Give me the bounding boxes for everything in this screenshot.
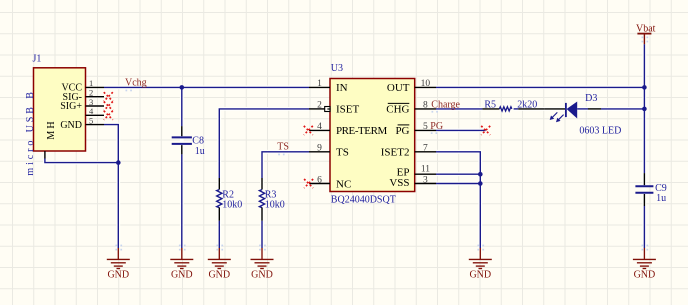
svg-text:GND: GND — [634, 269, 656, 280]
svg-text:5: 5 — [89, 115, 93, 125]
svg-text:6: 6 — [317, 175, 322, 185]
svg-text:TS: TS — [277, 142, 289, 153]
svg-text:10: 10 — [421, 79, 431, 89]
wire U3 ISET to R2 — [219, 109, 309, 178]
U3 pin 3 VSS — [415, 175, 436, 185]
wire C9 to GND — [643, 206, 645, 248]
no-ERC cross J1 pin 3 — [104, 102, 113, 111]
svg-text:2: 2 — [317, 101, 322, 111]
wire OUT to Vbat rail — [436, 86, 644, 88]
svg-text:1u: 1u — [195, 146, 205, 157]
svg-text:GND: GND — [208, 269, 230, 280]
svg-text:TS: TS — [336, 146, 349, 158]
svg-text:micro USB B: micro USB B — [25, 89, 36, 175]
svg-text:ISET: ISET — [336, 103, 360, 115]
capacitor C8 — [172, 87, 205, 156]
wire down to GND under J1 — [117, 163, 119, 248]
svg-text:PRE-TERM: PRE-TERM — [336, 125, 387, 137]
svg-text:U3: U3 — [331, 63, 343, 74]
no-ERC cross U3 pin 4 — [304, 126, 313, 135]
ground GND under C8 — [170, 248, 193, 269]
U3 pin 1 IN — [309, 79, 330, 89]
svg-text:3: 3 — [423, 175, 428, 185]
ground GND under J1 — [107, 248, 130, 269]
node EP junction — [478, 172, 483, 177]
wire U3 TS to R3 — [262, 152, 309, 178]
svg-text:Vchg: Vchg — [125, 78, 147, 89]
svg-text:1: 1 — [317, 79, 322, 89]
no-ERC cross J1 pin 2 — [104, 92, 113, 101]
ground GND under R3 — [251, 248, 274, 269]
U3 pin 10 OUT — [415, 79, 436, 89]
node D3/Vbat junction — [642, 107, 647, 112]
node Vchg junction at C8 — [180, 85, 185, 90]
wire Vchg net: J1 pin1 to U3 IN — [104, 86, 309, 88]
wire EP pin11 to GND net — [436, 173, 480, 175]
svg-text:ISET2: ISET2 — [381, 146, 410, 158]
LED D3 — [545, 93, 645, 136]
svg-text:GND: GND — [60, 120, 82, 131]
svg-text:0603 LED: 0603 LED — [579, 125, 621, 136]
J1 pin 1 — [86, 78, 105, 88]
J1 MH pin — [44, 151, 46, 159]
U3 pin 7 ISET2 — [415, 144, 436, 154]
svg-text:NC: NC — [336, 178, 351, 190]
svg-text:BQ24040DSQT: BQ24040DSQT — [331, 195, 396, 206]
svg-text:PG: PG — [430, 121, 443, 132]
svg-text:10k0: 10k0 — [222, 199, 242, 210]
node VSS junction — [478, 181, 483, 186]
U3 pin 2 ISET with input arrow — [309, 101, 331, 112]
svg-text:9: 9 — [317, 144, 322, 154]
power port Vbat — [636, 24, 656, 45]
svg-text:MH: MH — [46, 119, 57, 140]
svg-text:R5: R5 — [484, 100, 496, 111]
U3 pin 5 PG — [415, 122, 436, 132]
wire VSS pin3 to GND net — [436, 183, 480, 185]
svg-text:OUT: OUT — [387, 82, 410, 94]
svg-text:GND: GND — [251, 269, 273, 280]
svg-text:5: 5 — [423, 122, 428, 132]
wire Charge net U3 CHG to R5 — [436, 108, 482, 110]
ground GND under R2 — [208, 248, 231, 269]
svg-text:VSS: VSS — [389, 177, 409, 189]
svg-text:2k20: 2k20 — [517, 100, 537, 111]
svg-text:GND: GND — [469, 269, 491, 280]
svg-text:J1: J1 — [33, 54, 42, 65]
wire R2 to GND — [218, 221, 220, 248]
wire J1 MH to GND net — [45, 159, 118, 163]
connector J1 — [25, 54, 86, 176]
svg-text:1u: 1u — [656, 193, 666, 204]
node GND junction under J1 — [116, 160, 121, 165]
U3 pin 11 EP — [415, 165, 436, 175]
svg-text:4: 4 — [317, 122, 322, 132]
compile-mask dots at wire endpoints — [115, 37, 648, 251]
svg-text:PG: PG — [395, 125, 409, 137]
U3 pin 8 CHG — [415, 101, 436, 111]
no-ERC cross U3 pin 6 — [304, 179, 313, 188]
svg-text:GND: GND — [107, 269, 129, 280]
wire R3 to GND — [261, 221, 263, 248]
ground GND under U3 — [469, 248, 492, 269]
wire ISET2 pin7 down — [436, 152, 480, 248]
J1 pin 4 — [86, 106, 105, 116]
U3 pin 6 NC — [309, 175, 330, 185]
U3 pin 4 PRE-TERM — [309, 122, 330, 132]
resistor R3 — [259, 178, 284, 221]
no-ERC cross J1 pin 4 — [104, 111, 113, 120]
svg-text:IN: IN — [336, 82, 348, 94]
wire Vbat rail down — [643, 44, 645, 173]
node OUT/Vbat junction — [642, 85, 647, 90]
resistor R2 — [217, 178, 243, 221]
svg-text:SIG+: SIG+ — [60, 101, 82, 112]
wire J1 pin5 to GND — [104, 125, 118, 163]
svg-text:8: 8 — [423, 101, 428, 111]
resistor R5 — [482, 100, 545, 111]
U3 pin 9 TS — [309, 144, 330, 154]
svg-text:Charge: Charge — [431, 100, 460, 111]
J1 pin 5 — [86, 115, 105, 125]
svg-text:CHG: CHG — [386, 103, 409, 115]
capacitor C9 — [635, 173, 666, 206]
svg-text:D3: D3 — [585, 93, 597, 104]
J1 pin 2 — [86, 88, 105, 98]
J1 pin 3 — [86, 97, 105, 107]
svg-text:7: 7 — [423, 144, 428, 154]
ground GND under C9 — [633, 248, 656, 269]
white halo under wires (downscale ringing) — [45, 44, 645, 248]
svg-text:GND: GND — [171, 269, 193, 280]
wire PG net to no-ERC — [436, 129, 486, 131]
op-amp U3 charger IC BQ24040DSQT — [330, 63, 415, 206]
no-ERC cross PG — [481, 126, 490, 135]
svg-text:10k0: 10k0 — [265, 199, 285, 210]
wire C8 to GND — [181, 154, 183, 248]
svg-text:11: 11 — [421, 165, 430, 175]
